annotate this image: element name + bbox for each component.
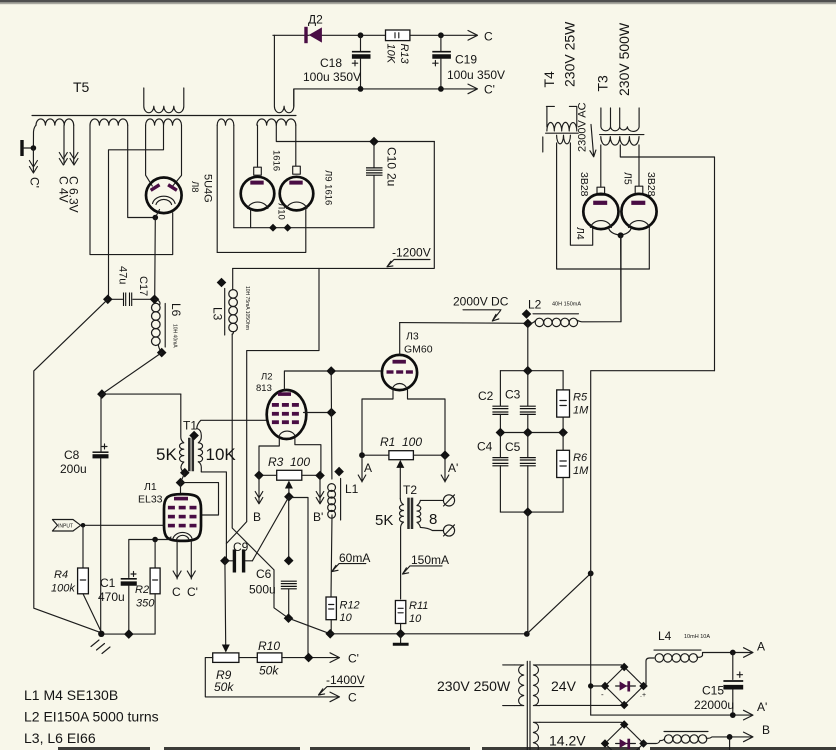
R1 wiper xyxy=(399,466,401,499)
bottom rail xyxy=(500,511,563,513)
svg-text:60mA: 60mA xyxy=(339,551,370,565)
node tie 2 xyxy=(284,224,292,232)
L5 cathode leads xyxy=(620,228,649,269)
top rail xyxy=(500,370,563,372)
arrow C' (down) xyxy=(29,148,37,173)
2000V DC pointer xyxy=(463,310,501,321)
svg-text:813: 813 xyxy=(256,383,272,394)
node R2 top xyxy=(152,537,158,543)
big left diagonal wire xyxy=(34,299,108,633)
wire W3 left to anode xyxy=(146,125,153,186)
svg-text:Л9 1616: Л9 1616 xyxy=(323,170,334,205)
wire 14.2V to bridge 2 xyxy=(540,722,624,724)
wire L2 g2 to anode vertical xyxy=(304,412,332,414)
bridge 2 diode xyxy=(616,743,636,745)
bridge rectifier 2 xyxy=(605,725,644,750)
svg-text:C: C xyxy=(484,30,493,44)
L2 cathode arc xyxy=(279,431,295,436)
bridge 2 corner nodes xyxy=(601,720,648,747)
wire W3 center tap xyxy=(109,125,164,299)
svg-text:5U4G: 5U4G xyxy=(202,174,214,203)
svg-text:A: A xyxy=(364,461,372,475)
svg-text:230V 250W: 230V 250W xyxy=(437,678,511,694)
svg-text:C: C xyxy=(348,691,357,705)
filament winding right leg xyxy=(233,125,235,228)
L9 cathode arc xyxy=(287,202,307,208)
svg-text:C3: C3 xyxy=(505,388,521,402)
svg-text:230V 25W: 230V 25W xyxy=(562,21,578,87)
GM60 cathode legs xyxy=(362,390,445,456)
svg-text:A': A' xyxy=(757,700,767,714)
C18 plus xyxy=(352,61,357,66)
node R11 ground xyxy=(396,629,406,639)
svg-text:24V: 24V xyxy=(551,678,577,694)
svg-text:10: 10 xyxy=(340,612,353,624)
wire T4 sec right xyxy=(570,143,592,245)
svg-text:C10: C10 xyxy=(385,147,399,169)
svg-text:R1: R1 xyxy=(380,435,395,449)
T5 HV secondary W3 xyxy=(146,119,182,125)
wire input to grid xyxy=(81,524,164,526)
svg-text:T4: T4 xyxy=(541,71,557,88)
svg-text:R11: R11 xyxy=(409,600,428,612)
ground rail xyxy=(330,633,527,635)
svg-text:10H 75mA 105Ohm: 10H 75mA 105Ohm xyxy=(244,286,250,330)
tube L4 envelope xyxy=(583,194,618,229)
node L2 anode xyxy=(326,366,336,376)
resistor R5 xyxy=(562,371,564,390)
C15 plus xyxy=(737,672,742,677)
svg-text:R2: R2 xyxy=(135,584,149,596)
L6 core bar xyxy=(164,304,166,348)
wire L6 to C8 node xyxy=(102,353,162,395)
INPUT pennant xyxy=(52,520,80,532)
inductor L1 choke xyxy=(328,484,336,519)
tube L9 envelope xyxy=(280,177,314,211)
svg-text:C17: C17 xyxy=(137,276,149,296)
L9 cathode lead xyxy=(217,208,306,252)
svg-text:R4: R4 xyxy=(54,569,68,581)
wire top rail C xyxy=(273,34,477,36)
mains transformer core xyxy=(527,661,530,750)
HV return diagonal xyxy=(527,573,591,634)
wire L3 output xyxy=(232,334,288,618)
node C' out xyxy=(304,653,314,663)
wire W2 right leg xyxy=(128,125,156,217)
resistor R2 xyxy=(154,540,156,569)
L4 cathode arc xyxy=(590,221,611,228)
node C6 top xyxy=(284,556,294,566)
L10 cathode arc xyxy=(248,202,268,208)
wire anode to g2 loop xyxy=(181,483,219,515)
svg-text:350: 350 xyxy=(136,598,155,610)
-1400V pointer xyxy=(319,687,364,695)
wire W1 tap arrows xyxy=(59,125,67,165)
resistor R9 xyxy=(213,653,239,663)
node L2 rail xyxy=(523,319,533,329)
svg-text:200u: 200u xyxy=(60,462,87,476)
wire wiper to C9 xyxy=(252,497,289,561)
svg-text:EL33: EL33 xyxy=(138,494,163,506)
T5 winding (1616 filament) xyxy=(217,119,234,125)
svg-text:B: B xyxy=(762,723,770,737)
tube GM60 envelope xyxy=(382,355,417,390)
resistor R10 xyxy=(257,653,282,663)
svg-text:C15: C15 xyxy=(702,684,724,698)
capacitor C2 xyxy=(499,371,501,406)
wire L2 anode node down to L1 xyxy=(330,371,333,479)
T4 primary xyxy=(546,106,576,131)
wire R9 left to C out xyxy=(205,658,338,697)
node tie 1 xyxy=(269,224,277,232)
resistor R6 xyxy=(562,433,564,451)
node 3B28 center xyxy=(618,232,624,238)
tube L5 envelope xyxy=(621,194,656,229)
wire C6 to ground rail xyxy=(289,618,331,634)
T1 secondary 10K winding xyxy=(197,429,203,472)
mains transformer primary stubs xyxy=(503,665,515,706)
svg-text:C: C xyxy=(172,585,181,599)
T5 primary winding xyxy=(144,88,184,113)
mains plug T-symbol xyxy=(20,140,23,156)
svg-text:10mH 10A: 10mH 10A xyxy=(684,634,710,640)
L2 top cap bar xyxy=(278,392,291,396)
svg-text:2u: 2u xyxy=(385,173,399,186)
tube L9 top cap xyxy=(293,166,301,174)
capacitor C9 xyxy=(225,560,253,562)
node L2 floating xyxy=(522,309,532,319)
L10 cathode lead xyxy=(250,210,252,228)
node bank top xyxy=(523,366,533,376)
wire bottom rail C' xyxy=(294,89,477,106)
wire C17 left xyxy=(109,298,123,300)
svg-text:C': C' xyxy=(484,83,495,97)
capacitor C10 xyxy=(373,142,375,168)
middle rail xyxy=(500,432,563,434)
bridge 1 diode xyxy=(616,685,636,687)
svg-text:100u 350V: 100u 350V xyxy=(447,68,505,82)
capacitor C1 xyxy=(121,578,137,580)
arrow C xyxy=(468,31,478,41)
inductor L6 xyxy=(155,299,162,352)
node L6 bottom xyxy=(157,348,167,358)
svg-text:C': C' xyxy=(28,177,42,188)
A output rail xyxy=(733,652,752,654)
svg-text:C19: C19 xyxy=(455,53,477,67)
L1 anode bar xyxy=(174,497,188,501)
L1 filament arrows C C' xyxy=(173,541,181,579)
secondary 14.2V winding xyxy=(533,722,539,750)
svg-text:T3: T3 xyxy=(595,75,611,92)
wire C17 right xyxy=(133,298,155,300)
svg-text:Д2: Д2 xyxy=(308,13,323,27)
L2 grid dashes xyxy=(272,403,299,424)
wire L2 down to cap bank xyxy=(527,324,529,371)
node C15 bottom xyxy=(730,712,736,718)
ground node xyxy=(98,631,104,637)
node mid left xyxy=(496,428,506,438)
svg-text:B': B' xyxy=(313,510,323,524)
wire winding center to HV rail xyxy=(276,125,434,141)
node bank bottom xyxy=(523,507,533,517)
node C6 bottom xyxy=(284,613,294,623)
svg-text:L6: L6 xyxy=(169,303,183,317)
wire R4 bottom to ground xyxy=(83,594,101,632)
L1 cathode wire to C1 xyxy=(129,537,171,578)
svg-text:L3: L3 xyxy=(211,307,225,321)
node mid right xyxy=(558,428,568,438)
bridge 1 corner nodes xyxy=(601,663,648,709)
svg-text:2000V DC: 2000V DC xyxy=(453,295,509,309)
svg-text:Л8: Л8 xyxy=(189,181,200,193)
tube L8 5U4G envelope xyxy=(146,178,182,214)
capacitor C4 xyxy=(499,433,501,458)
node R1 right xyxy=(440,450,450,460)
terminal top xyxy=(443,495,454,506)
arrow A' out xyxy=(744,710,754,720)
node A rail xyxy=(730,650,736,656)
capacitor C17 xyxy=(124,293,132,307)
node L1 anode top xyxy=(176,478,186,488)
HV rail xyxy=(400,322,528,325)
svg-text:A: A xyxy=(757,640,765,654)
60mA pointer xyxy=(332,564,366,572)
arrow A' xyxy=(441,455,449,482)
wire bridge1 plus to L4 xyxy=(644,661,647,686)
L1 grid dashes xyxy=(168,506,197,528)
L5 choke core line xyxy=(664,731,708,733)
T5 core xyxy=(32,115,296,117)
svg-text:50k: 50k xyxy=(259,664,279,678)
svg-text:L4: L4 xyxy=(658,629,672,643)
wire T3 sec left to L4 cap xyxy=(600,145,602,187)
svg-text:L2 EI150A 5000 turns: L2 EI150A 5000 turns xyxy=(24,709,159,725)
resistor R12 xyxy=(326,597,336,620)
svg-text:-: - xyxy=(601,690,604,699)
L2 top cap wire xyxy=(284,371,382,390)
svg-text:C 6.3V: C 6.3V xyxy=(67,176,81,213)
GM60 anode bar xyxy=(393,360,406,364)
svg-text:Л5: Л5 xyxy=(622,172,634,185)
svg-text:14.2V: 14.2V xyxy=(549,733,586,749)
svg-text:-1400V: -1400V xyxy=(326,673,365,687)
svg-text:L1: L1 xyxy=(345,482,359,496)
svg-text:47u: 47u xyxy=(117,266,129,284)
svg-text:L2: L2 xyxy=(528,298,542,312)
svg-text:100: 100 xyxy=(290,455,310,469)
node 5U4G cathode xyxy=(153,215,159,221)
arrow B xyxy=(255,475,263,504)
node R1 left xyxy=(359,452,365,458)
wire 5K bottom to L1 anode xyxy=(181,473,185,495)
wire W2 left leg xyxy=(90,125,173,254)
wire HV rail down to -1200V rail xyxy=(233,142,435,269)
svg-text:1616: 1616 xyxy=(271,150,282,171)
svg-text:150mA: 150mA xyxy=(411,553,449,567)
svg-text:230V 500W: 230V 500W xyxy=(616,22,632,96)
L2 choke core line xyxy=(533,313,579,315)
inductor L3 xyxy=(232,268,233,334)
tube L10 envelope xyxy=(241,177,275,211)
A' output rail xyxy=(591,714,752,716)
svg-text:1M: 1M xyxy=(573,465,589,477)
wire 24V to bridge xyxy=(540,665,624,706)
tube L4 top cap xyxy=(597,187,605,195)
svg-text:T5: T5 xyxy=(73,79,90,95)
svg-text:R12: R12 xyxy=(340,600,360,612)
svg-text:C8: C8 xyxy=(64,448,80,462)
node mid center xyxy=(523,428,533,438)
L1 choke core bar xyxy=(340,479,342,521)
T5 winding (1616 anode caps) xyxy=(257,119,296,125)
svg-text:C2: C2 xyxy=(478,389,494,403)
svg-text:T1: T1 xyxy=(183,419,197,433)
wire R9-R10 xyxy=(239,657,257,659)
tube L2 envelope xyxy=(267,390,307,439)
wire wiper to filament C' xyxy=(289,498,308,658)
L4 choke core line xyxy=(654,649,701,651)
L2 right leg to R3 xyxy=(295,439,321,472)
node C1 bottom xyxy=(124,629,134,639)
T3 secondary xyxy=(601,137,639,146)
C1 plus xyxy=(131,572,136,577)
capacitor C19 xyxy=(440,35,442,50)
L9 anode plate xyxy=(289,181,302,185)
wire bank bottom to ground rail xyxy=(527,512,529,634)
GM60 cathode arc xyxy=(393,384,407,389)
wire 10K top to L2 grid line xyxy=(197,420,268,428)
arrow A xyxy=(358,455,366,482)
bridge rectifier 1 xyxy=(605,667,644,705)
svg-text:3B28: 3B28 xyxy=(578,172,590,197)
resistor R3 xyxy=(277,470,302,480)
node R12 ground xyxy=(325,629,335,639)
svg-text:500u: 500u xyxy=(249,583,276,597)
wire R3 ends xyxy=(259,474,320,476)
ground bar under R11 xyxy=(400,634,402,643)
node C17 right xyxy=(150,294,160,304)
C8 plus sign xyxy=(102,444,107,449)
wire R10 to C' out xyxy=(282,657,339,659)
capacitor C5 xyxy=(527,433,529,458)
T5 secondary W2 (5U4G filament) xyxy=(90,119,128,125)
T4 core xyxy=(546,132,579,134)
diode D2 cathode bar xyxy=(304,27,307,43)
wire T4 sec left xyxy=(557,143,650,269)
L8 anode plates xyxy=(150,183,161,192)
top scan edge xyxy=(0,0,836,2)
HV return vertical xyxy=(591,371,715,715)
node return A' xyxy=(588,683,593,688)
L4 anode plate xyxy=(593,201,607,205)
arrow C' xyxy=(468,84,478,94)
node C19 bottom xyxy=(438,86,444,92)
node C9 left xyxy=(220,556,230,566)
svg-text:1M: 1M xyxy=(573,405,589,417)
C19 plus xyxy=(433,61,438,66)
svg-text:10: 10 xyxy=(409,613,422,625)
capacitor C3 xyxy=(527,371,529,406)
wire to L9 cap xyxy=(295,125,297,166)
wire W3 right to anode xyxy=(173,125,182,186)
L5 anode plate xyxy=(631,201,645,205)
svg-text:Л10: Л10 xyxy=(276,203,287,220)
node T1 top xyxy=(189,431,199,441)
svg-text:10H 40mA: 10H 40mA xyxy=(172,324,178,348)
arrow C out xyxy=(330,692,340,702)
L2 left leg to R3 xyxy=(259,438,279,472)
wire C8 node to T1 xyxy=(102,393,181,395)
inductor L4 xyxy=(646,653,733,662)
node C18 top xyxy=(358,32,364,38)
L5 cathode arc xyxy=(629,221,650,228)
node B rail xyxy=(727,734,733,740)
T5 winding (D2 supply, above core) xyxy=(274,35,293,112)
diode D2 xyxy=(309,27,322,42)
arrow B' xyxy=(316,476,324,504)
tube L5 top cap xyxy=(635,186,643,194)
L1 cathode arc xyxy=(173,532,192,538)
svg-text:5K: 5K xyxy=(375,512,393,529)
resistor R13 xyxy=(386,30,410,41)
svg-text:3B28: 3B28 xyxy=(645,172,657,197)
wire 3B28 node to L2 xyxy=(620,235,622,321)
wire bridge1 minus to return xyxy=(591,685,605,687)
tube L1 envelope xyxy=(164,494,201,541)
svg-text:50k: 50k xyxy=(214,680,234,694)
T1 primary 5K winding xyxy=(179,394,184,473)
L8 cathode lead xyxy=(155,210,160,300)
L10 anode plate xyxy=(250,181,263,185)
node ground rail right end xyxy=(524,631,530,637)
tube L10 top cap xyxy=(254,167,262,175)
150mA pointer xyxy=(403,566,443,574)
inductor L5 xyxy=(660,737,752,741)
svg-text:22000u: 22000u xyxy=(694,698,734,712)
svg-text:10K: 10K xyxy=(206,445,237,464)
svg-text:C': C' xyxy=(187,585,198,599)
node g2 xyxy=(327,408,337,418)
svg-text:Л3: Л3 xyxy=(406,331,419,343)
arrow B out xyxy=(744,732,754,742)
T2 core xyxy=(409,498,413,529)
svg-text:2300V AC: 2300V AC xyxy=(577,102,589,152)
wire anode node up and around xyxy=(226,268,319,543)
svg-text:Л4: Л4 xyxy=(574,227,586,240)
wire T2 sec to terminals xyxy=(420,500,443,530)
capacitor C15 xyxy=(732,653,734,680)
node R3 right xyxy=(315,471,325,481)
svg-text:L1 M4 SE130B: L1 M4 SE130B xyxy=(24,687,118,703)
node L3 top xyxy=(217,278,227,288)
svg-text:100u 350V: 100u 350V xyxy=(303,70,361,84)
svg-text:R13: R13 xyxy=(398,44,410,65)
T2 secondary 8ohm xyxy=(417,500,421,527)
svg-text:C': C' xyxy=(348,652,359,666)
svg-text:10K: 10K xyxy=(385,44,397,64)
T3 core xyxy=(600,134,644,136)
svg-text:INPUT: INPUT xyxy=(58,524,73,530)
wire wiper down to C6 xyxy=(288,497,290,561)
wire bridge2 plus to L5 xyxy=(644,741,661,744)
inductor L2 xyxy=(528,235,621,323)
svg-text:R3: R3 xyxy=(268,455,284,469)
GM60 anode top wire xyxy=(399,323,401,355)
svg-text:GM60: GM60 xyxy=(404,344,433,356)
svg-text:8: 8 xyxy=(429,511,437,528)
capacitor C18 xyxy=(360,35,362,50)
svg-text:C1: C1 xyxy=(100,576,116,590)
